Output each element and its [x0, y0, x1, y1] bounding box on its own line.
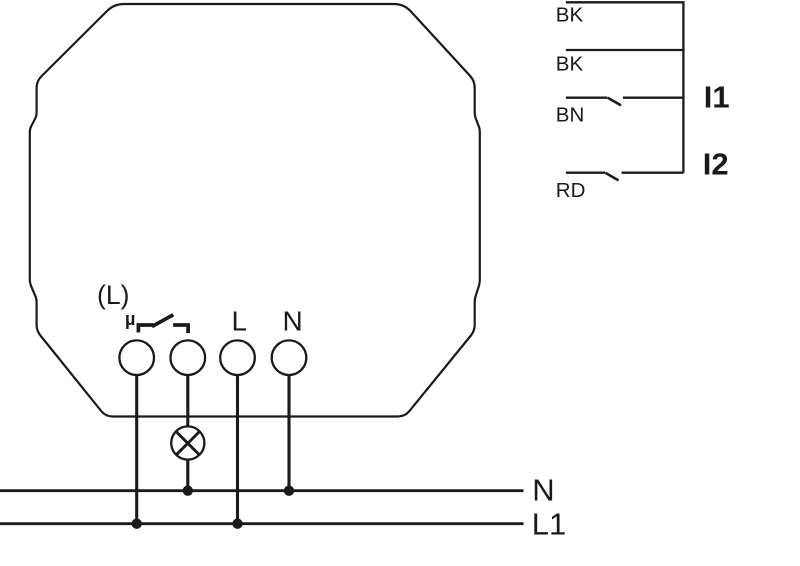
svg-text:N: N	[532, 472, 554, 507]
svg-text:RD: RD	[556, 179, 586, 202]
svg-text:BN: BN	[556, 103, 584, 126]
wire terminal1 to L1 bus	[135, 375, 138, 524]
svg-text:I1: I1	[704, 79, 730, 114]
terminal 1 (L) switched output	[119, 340, 154, 375]
N bus line	[0, 489, 524, 492]
svg-text:µ: µ	[125, 309, 135, 329]
svg-text:BK: BK	[556, 52, 584, 75]
L1 bus line	[0, 522, 524, 525]
wire BN right segment	[623, 97, 684, 99]
svg-text:I2: I2	[703, 147, 729, 182]
wire RD right segment	[622, 172, 684, 174]
wire terminal3 to L1 bus	[236, 375, 239, 524]
wire RD left segment	[566, 172, 605, 174]
wire terminal4 to N bus	[287, 375, 290, 491]
relay contact K1 blade	[152, 315, 173, 327]
relay contact K1 right terminal	[173, 325, 188, 333]
switch S2 blade on RD	[605, 173, 618, 181]
junction terminal4-N	[284, 486, 294, 496]
junction terminal3-L1	[232, 519, 242, 529]
wire lamp to N bus	[186, 459, 189, 491]
wire terminal2 to lamp	[186, 375, 189, 427]
junction terminal1-L1	[132, 519, 142, 529]
wire BK second	[566, 49, 684, 51]
terminal 4 N supply	[272, 340, 307, 375]
switch S1 blade on BN	[608, 98, 621, 106]
svg-text:N: N	[283, 306, 303, 337]
svg-text:L: L	[232, 306, 248, 337]
svg-text:BK: BK	[556, 4, 584, 27]
relay contact K1 left terminal	[138, 325, 153, 333]
terminal 3 L supply	[220, 340, 255, 375]
wire BN left segment	[566, 97, 608, 99]
terminal 2 lamp return	[171, 340, 206, 375]
device housing outline (flush-mount actuator)	[30, 4, 480, 417]
wire BK top with right vertical bus	[566, 2, 684, 172]
svg-text:(L): (L)	[97, 280, 129, 310]
junction lamp-N	[183, 486, 193, 496]
lamp E1	[171, 426, 204, 459]
svg-text:L1: L1	[532, 507, 566, 542]
